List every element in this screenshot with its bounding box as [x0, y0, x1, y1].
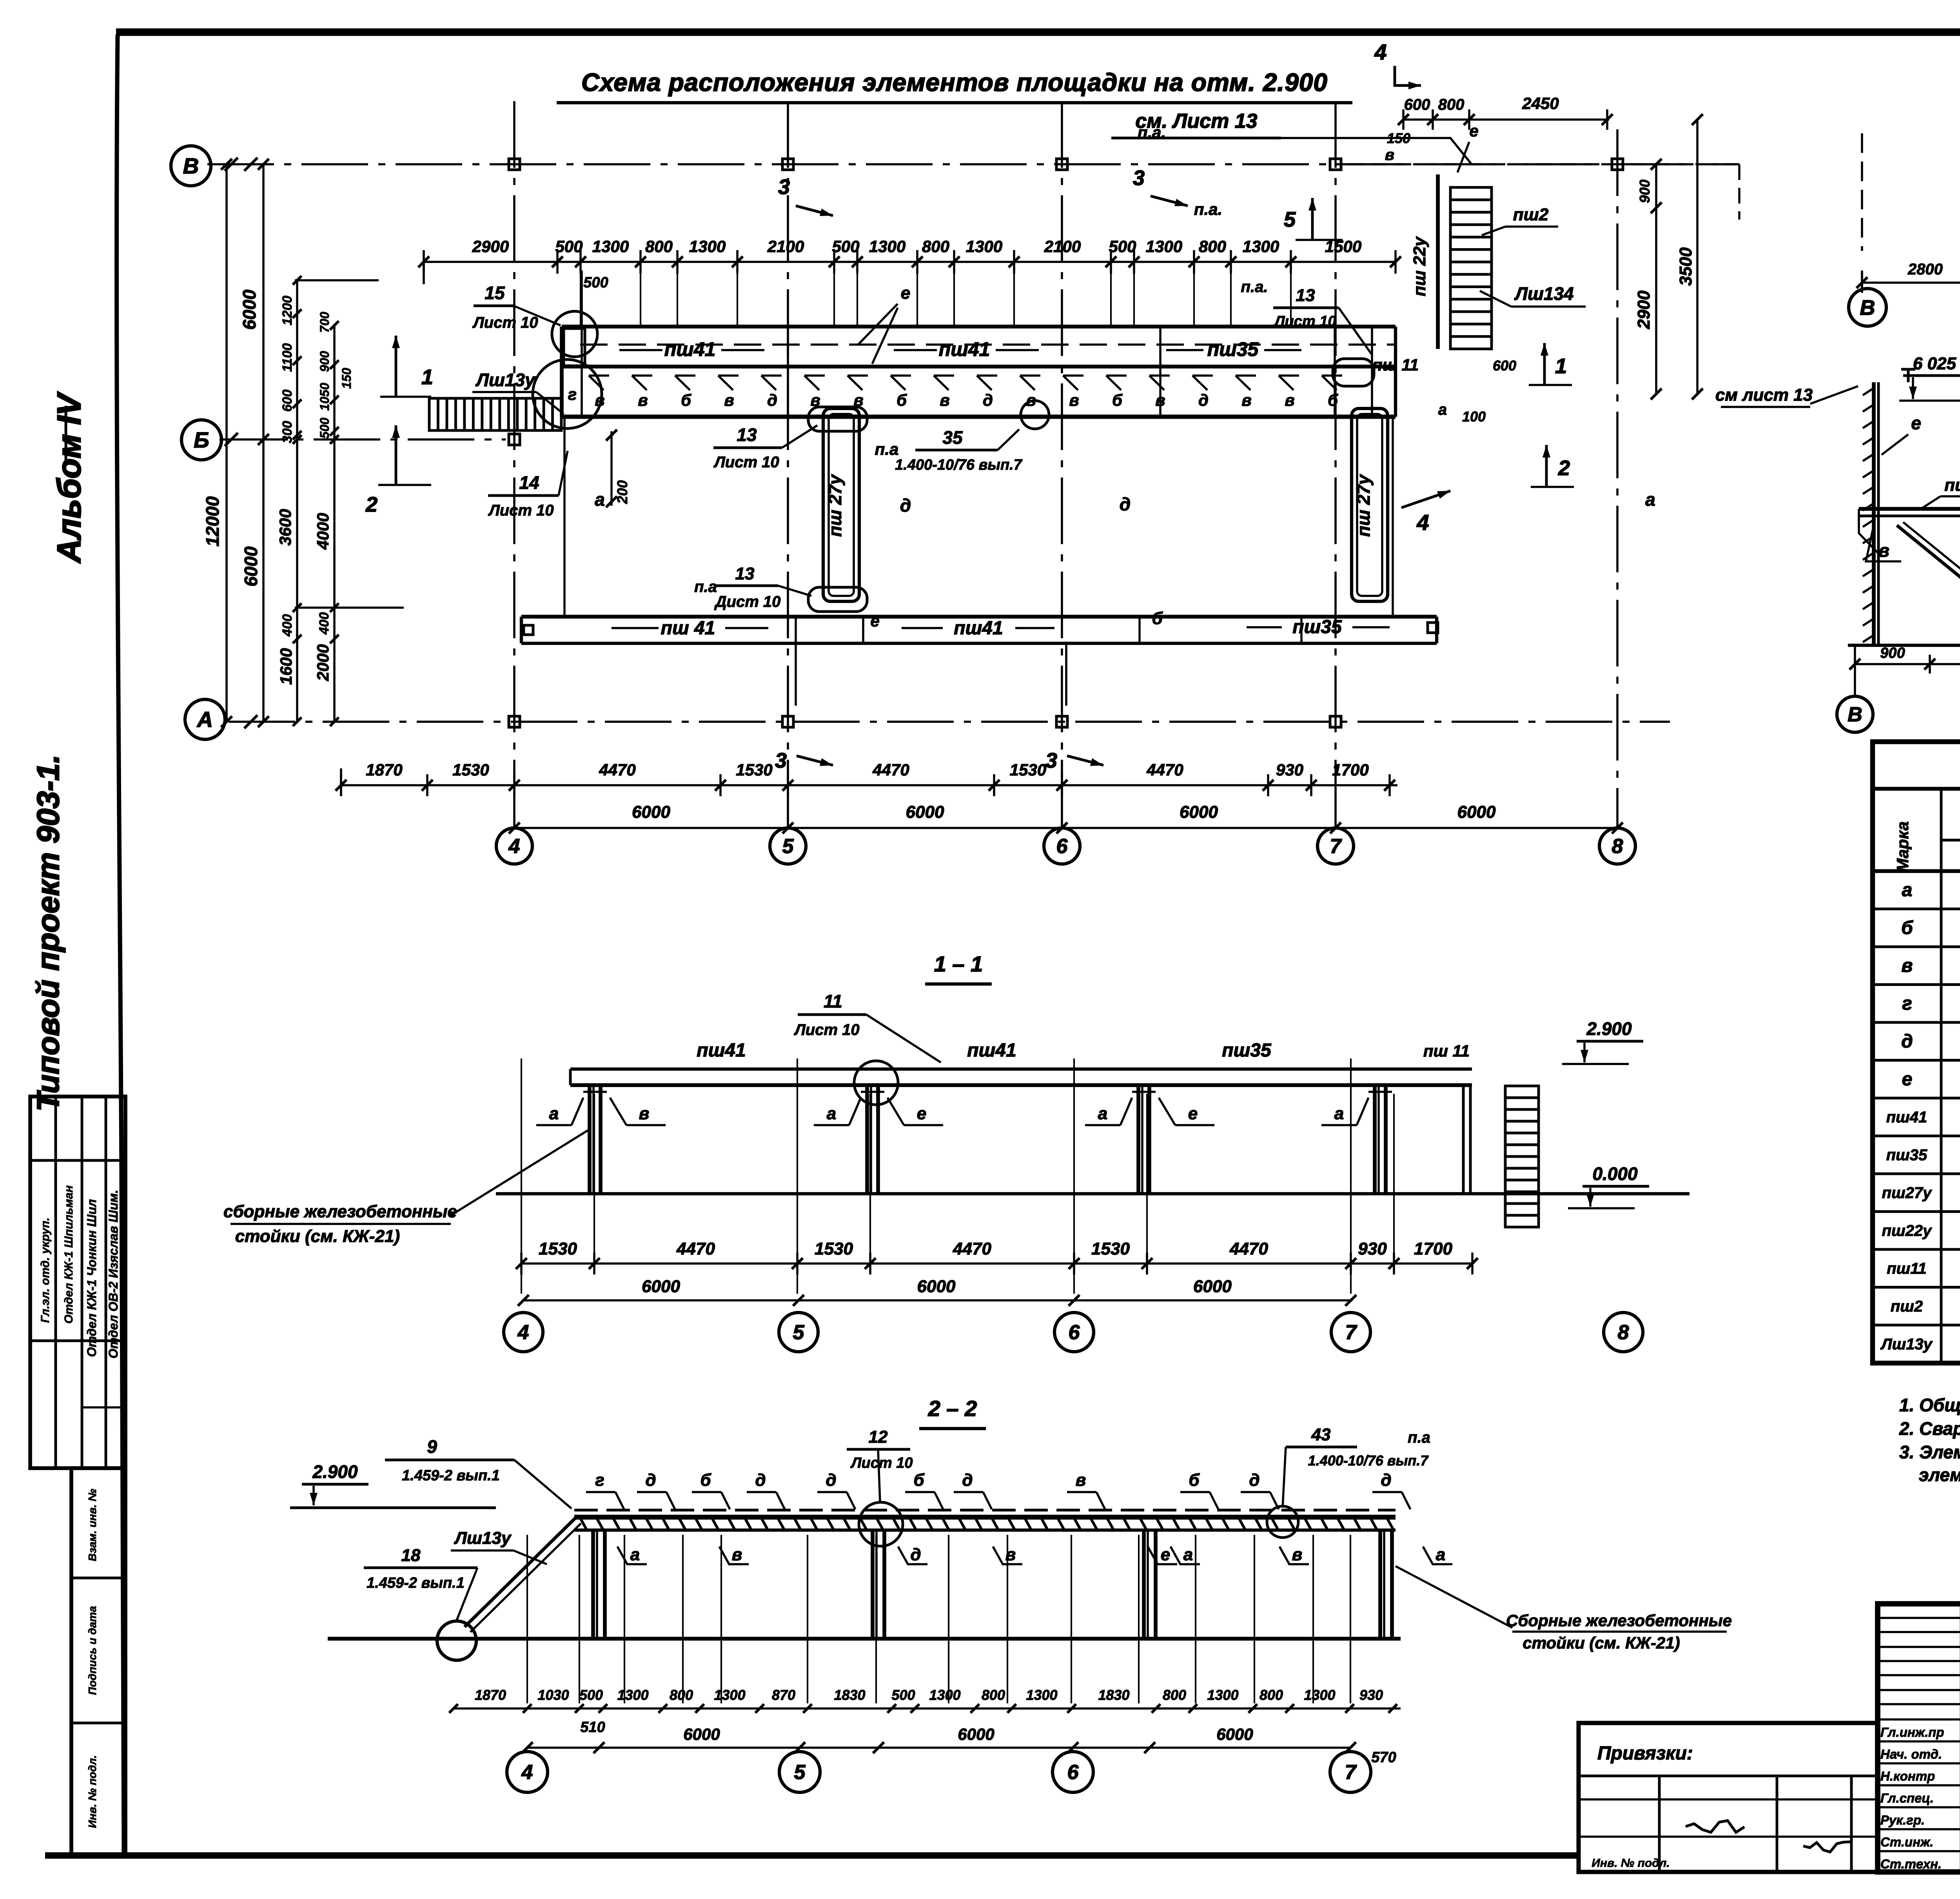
svg-text:Гл.эл. отд. укруп.: Гл.эл. отд. укруп. [39, 1218, 52, 1323]
svg-text:Инв. № подл.: Инв. № подл. [86, 1755, 98, 1828]
svg-text:900: 900 [1880, 645, 1905, 661]
svg-text:в: в [940, 391, 949, 409]
svg-text:Ст.инж.: Ст.инж. [1880, 1835, 1933, 1849]
svg-text:пш 27у: пш 27у [825, 474, 845, 537]
svg-text:18: 18 [401, 1546, 421, 1565]
svg-text:800: 800 [922, 237, 949, 256]
svg-text:300: 300 [280, 421, 295, 443]
svg-text:3. Элементы с индексом „У”: 3. Элементы с индексом „У” выполнить ана… [1899, 1442, 1960, 1462]
svg-text:1530: 1530 [539, 1239, 577, 1258]
svg-text:Альбом IV: Альбом IV [51, 392, 87, 564]
svg-text:а: а [827, 1104, 836, 1123]
svg-text:в: в [1878, 540, 1889, 561]
svg-text:1700: 1700 [1414, 1239, 1452, 1258]
svg-text:1300: 1300 [592, 237, 629, 256]
svg-text:В: В [1860, 296, 1875, 320]
svg-text:2. Сварку выполнять электрод: 2. Сварку выполнять электродами типа Э42… [1899, 1418, 1960, 1439]
svg-text:в: в [1005, 1545, 1016, 1564]
svg-text:1 – 1: 1 – 1 [934, 951, 983, 976]
svg-text:пш 41: пш 41 [661, 618, 715, 639]
svg-text:6 025: 6 025 [1913, 354, 1956, 373]
svg-text:150: 150 [1387, 130, 1410, 146]
svg-text:e: e [901, 283, 910, 303]
svg-text:В: В [1847, 703, 1862, 726]
svg-text:2: 2 [365, 493, 377, 516]
svg-text:в: в [1241, 391, 1251, 409]
svg-text:1100: 1100 [280, 343, 295, 372]
svg-text:пш22у: пш22у [1944, 476, 1960, 495]
svg-text:6000: 6000 [683, 1725, 720, 1743]
svg-text:пш41: пш41 [954, 618, 1003, 639]
svg-text:Дист 10: Дист 10 [714, 593, 781, 610]
svg-text:e: e [1469, 122, 1478, 140]
svg-text:Гл.инж.пр: Гл.инж.пр [1880, 1725, 1944, 1739]
svg-text:870: 870 [772, 1687, 795, 1703]
svg-text:6000: 6000 [642, 1277, 680, 1296]
svg-text:в: в [638, 391, 648, 409]
svg-text:п.а.: п.а. [1138, 123, 1166, 142]
svg-text:800: 800 [645, 237, 673, 256]
svg-text:43: 43 [1311, 1425, 1331, 1444]
svg-text:1870: 1870 [366, 761, 402, 779]
svg-text:500: 500 [555, 237, 583, 256]
svg-text:3: 3 [1133, 166, 1145, 190]
svg-text:600: 600 [280, 390, 295, 412]
svg-text:1300: 1300 [1146, 237, 1182, 256]
svg-text:в: в [639, 1104, 650, 1123]
svg-text:пш 11: пш 11 [1372, 356, 1419, 374]
svg-text:1530: 1530 [1010, 761, 1046, 779]
svg-text:400: 400 [317, 612, 332, 635]
svg-text:11: 11 [824, 991, 842, 1011]
svg-text:б: б [1901, 918, 1913, 939]
svg-text:1300: 1300 [714, 1687, 745, 1703]
svg-text:1300: 1300 [929, 1687, 960, 1703]
svg-text:6000: 6000 [958, 1725, 994, 1743]
svg-text:Лш13у: Лш13у [475, 370, 536, 390]
svg-text:а: а [1098, 1104, 1107, 1123]
svg-text:А: А [196, 707, 213, 732]
svg-text:2900: 2900 [472, 237, 509, 256]
svg-text:6000: 6000 [917, 1277, 956, 1296]
svg-text:а: а [1902, 880, 1913, 900]
svg-text:пш35: пш35 [1292, 617, 1342, 637]
svg-text:1530: 1530 [452, 761, 489, 779]
svg-text:6000: 6000 [239, 289, 260, 330]
svg-text:13: 13 [1296, 286, 1315, 305]
svg-text:4470: 4470 [1146, 761, 1183, 779]
svg-text:д: д [1120, 494, 1131, 514]
svg-text:800: 800 [1259, 1687, 1283, 1703]
svg-text:5: 5 [782, 835, 794, 858]
svg-text:п.а: п.а [1408, 1429, 1430, 1446]
svg-text:б: б [1112, 391, 1123, 409]
svg-text:д: д [962, 1471, 973, 1490]
svg-text:пш2: пш2 [1513, 205, 1549, 224]
svg-text:Взам. инв. №: Взам. инв. № [86, 1489, 98, 1561]
svg-text:1700: 1700 [1332, 761, 1368, 779]
svg-text:200: 200 [614, 480, 630, 504]
svg-text:4: 4 [508, 835, 520, 858]
svg-text:1300: 1300 [869, 237, 906, 256]
svg-text:Подпись и дата: Подпись и дата [86, 1606, 98, 1695]
svg-text:0.000: 0.000 [1592, 1164, 1638, 1184]
svg-text:а: а [1645, 489, 1655, 510]
svg-text:1530: 1530 [1091, 1239, 1130, 1258]
svg-text:1300: 1300 [1026, 1687, 1057, 1703]
svg-text:3: 3 [778, 175, 790, 199]
svg-text:а: а [1183, 1545, 1193, 1564]
svg-text:6: 6 [1069, 1321, 1080, 1344]
svg-text:пш 11: пш 11 [1423, 1042, 1470, 1060]
svg-text:2 – 2: 2 – 2 [928, 1396, 977, 1421]
svg-text:пш27у: пш27у [1882, 1184, 1932, 1202]
svg-text:п.а: п.а [694, 578, 717, 595]
svg-text:а: а [549, 1104, 559, 1123]
svg-text:8: 8 [1618, 1321, 1629, 1344]
svg-text:4: 4 [521, 1761, 533, 1784]
svg-text:п.а.: п.а. [1194, 200, 1222, 218]
svg-text:б: б [1152, 609, 1163, 628]
svg-text:5: 5 [793, 1321, 805, 1344]
svg-text:6000: 6000 [1180, 802, 1218, 822]
svg-text:пш35: пш35 [1207, 338, 1259, 360]
svg-text:4: 4 [1374, 40, 1387, 64]
svg-text:100: 100 [1462, 408, 1486, 425]
svg-text:500: 500 [583, 274, 608, 291]
svg-text:1300: 1300 [1207, 1687, 1238, 1703]
svg-text:п.а: п.а [875, 440, 899, 458]
svg-text:500: 500 [832, 237, 859, 256]
svg-text:Лист 10: Лист 10 [472, 314, 538, 331]
svg-text:150: 150 [339, 368, 354, 389]
svg-text:570: 570 [1371, 1749, 1396, 1766]
svg-text:Лист 10: Лист 10 [713, 454, 779, 471]
svg-text:Лист 10: Лист 10 [1273, 313, 1336, 330]
svg-text:6000: 6000 [632, 802, 670, 822]
svg-text:Лист 10: Лист 10 [793, 1021, 859, 1038]
svg-text:600: 600 [1493, 358, 1516, 374]
svg-text:д: д [767, 391, 777, 409]
svg-text:а: а [630, 1545, 640, 1564]
svg-text:2.900: 2.900 [1586, 1018, 1632, 1039]
svg-text:7: 7 [1345, 1321, 1357, 1344]
svg-text:3600: 3600 [276, 509, 294, 545]
svg-text:д: д [1381, 1471, 1391, 1490]
svg-text:б: б [913, 1471, 925, 1490]
svg-text:Отдел КЖ-1 Шпильман: Отдел КЖ-1 Шпильман [62, 1186, 75, 1324]
svg-text:4: 4 [1416, 510, 1429, 535]
svg-text:6000: 6000 [241, 546, 261, 586]
svg-text:900: 900 [318, 351, 332, 372]
svg-text:б: б [700, 1471, 711, 1490]
svg-text:д: д [1249, 1471, 1259, 1490]
svg-text:1870: 1870 [475, 1687, 506, 1703]
svg-text:д: д [900, 495, 911, 516]
svg-text:930: 930 [1276, 761, 1303, 779]
svg-text:2: 2 [1558, 456, 1570, 480]
svg-text:Лш13у: Лш13у [1880, 1336, 1933, 1353]
svg-text:12: 12 [869, 1427, 888, 1447]
svg-text:Привязки:: Привязки: [1597, 1743, 1693, 1764]
svg-text:6000: 6000 [1193, 1277, 1232, 1296]
svg-text:Б: Б [194, 428, 209, 452]
svg-text:д: д [645, 1471, 656, 1490]
svg-text:6: 6 [1067, 1761, 1079, 1784]
svg-text:1.400-10/76 вып.7: 1.400-10/76 вып.7 [895, 457, 1023, 473]
svg-text:6000: 6000 [906, 802, 944, 822]
svg-text:элементам серии 1.459-2 вып.: элементам серии 1.459-2 вып.1 с укорочен… [1919, 1465, 1960, 1485]
svg-text:4470: 4470 [1229, 1239, 1268, 1258]
svg-text:2100: 2100 [767, 237, 804, 256]
svg-text:800: 800 [670, 1687, 693, 1703]
svg-text:510: 510 [580, 1719, 605, 1736]
svg-text:2450: 2450 [1522, 94, 1559, 113]
svg-text:500: 500 [318, 418, 332, 439]
svg-text:см лист 13: см лист 13 [1715, 385, 1813, 405]
svg-text:пш11: пш11 [1887, 1260, 1927, 1277]
svg-text:д: д [826, 1471, 836, 1490]
svg-text:5: 5 [794, 1761, 806, 1784]
svg-text:12000: 12000 [202, 496, 223, 546]
svg-text:6000: 6000 [1457, 802, 1496, 822]
svg-text:700: 700 [318, 312, 332, 333]
svg-text:1530: 1530 [815, 1239, 853, 1258]
svg-text:3: 3 [1045, 749, 1057, 772]
svg-text:сборные железобетонные: сборные железобетонные [223, 1202, 457, 1221]
svg-text:1030: 1030 [537, 1687, 569, 1703]
svg-text:б: б [1328, 391, 1338, 409]
svg-text:Инв. № подл.: Инв. № подл. [1592, 1857, 1670, 1870]
svg-text:в: в [1155, 391, 1165, 409]
svg-text:14: 14 [519, 472, 539, 493]
svg-text:г: г [595, 1471, 604, 1490]
svg-text:4: 4 [517, 1321, 529, 1344]
svg-text:Лш13у: Лш13у [454, 1529, 512, 1548]
svg-text:пш 27у: пш 27у [1353, 474, 1374, 537]
svg-text:в: в [1385, 146, 1394, 163]
svg-text:а: а [1334, 1104, 1344, 1123]
svg-text:пш41: пш41 [939, 338, 990, 360]
svg-text:в: в [1902, 955, 1913, 976]
svg-text:1.459-2 вып.1: 1.459-2 вып.1 [367, 1575, 465, 1591]
svg-text:800: 800 [1163, 1687, 1186, 1703]
svg-text:д: д [1198, 391, 1209, 409]
svg-text:800: 800 [982, 1687, 1005, 1703]
svg-text:4000: 4000 [314, 513, 332, 550]
svg-text:д: д [910, 1545, 921, 1564]
svg-text:а: а [595, 489, 605, 510]
svg-text:e: e [870, 612, 879, 630]
svg-text:500: 500 [579, 1687, 603, 1703]
svg-text:Типовой проект 903-1.: Типовой проект 903-1. [31, 755, 65, 1112]
svg-text:пш35: пш35 [1222, 1040, 1272, 1061]
svg-text:п.а.: п.а. [1241, 278, 1268, 296]
svg-text:а: а [1436, 1545, 1445, 1564]
svg-text:1050: 1050 [318, 383, 332, 410]
svg-text:пш41: пш41 [697, 1040, 746, 1061]
svg-text:пш41: пш41 [664, 338, 716, 360]
svg-text:7: 7 [1330, 835, 1342, 858]
svg-text:e: e [1188, 1104, 1198, 1123]
svg-text:пш 22у: пш 22у [1410, 236, 1429, 296]
svg-text:2.900: 2.900 [312, 1461, 358, 1482]
svg-text:Лш134: Лш134 [1514, 283, 1573, 304]
svg-text:в: в [1292, 1545, 1303, 1564]
svg-text:e: e [917, 1104, 926, 1123]
svg-text:600: 600 [1404, 96, 1430, 113]
svg-text:пш35: пш35 [1886, 1147, 1927, 1164]
svg-text:пш22у: пш22у [1882, 1222, 1932, 1240]
svg-text:4470: 4470 [872, 761, 909, 779]
svg-text:б: б [897, 391, 907, 409]
svg-text:2000: 2000 [314, 644, 332, 681]
svg-text:в: в [1285, 391, 1294, 409]
svg-text:4470: 4470 [676, 1239, 715, 1258]
svg-text:Сборные железобетонные: Сборные железобетонные [1506, 1611, 1732, 1630]
svg-text:2900: 2900 [1634, 290, 1653, 329]
svg-text:Отдел КЖ-1 Чонкин Шил: Отдел КЖ-1 Чонкин Шил [85, 1199, 99, 1357]
svg-text:в: в [1069, 391, 1079, 409]
svg-text:4470: 4470 [953, 1239, 991, 1258]
svg-text:б: б [1189, 1471, 1200, 1490]
svg-text:е: е [1161, 1545, 1170, 1564]
svg-text:В: В [183, 154, 199, 178]
svg-text:в: в [1076, 1471, 1086, 1490]
svg-text:930: 930 [1359, 1687, 1383, 1703]
svg-text:800: 800 [1438, 96, 1465, 113]
svg-text:1830: 1830 [1098, 1687, 1129, 1703]
svg-text:г: г [1902, 993, 1912, 1014]
svg-text:5: 5 [1284, 208, 1296, 231]
svg-text:2800: 2800 [1907, 261, 1943, 278]
svg-text:1: 1 [421, 365, 433, 389]
svg-text:е: е [1902, 1069, 1913, 1090]
svg-text:г: г [568, 385, 577, 403]
svg-text:1830: 1830 [834, 1687, 865, 1703]
svg-text:Лист 10: Лист 10 [850, 1455, 913, 1471]
svg-text:1300: 1300 [617, 1687, 648, 1703]
svg-text:13: 13 [737, 425, 757, 445]
svg-text:Отдел ОВ-2 Изяслав Шим.: Отдел ОВ-2 Изяслав Шим. [106, 1190, 120, 1358]
svg-text:Схема расположения элементов: Схема расположения элементов площадки на… [581, 68, 1328, 96]
svg-text:930: 930 [1358, 1239, 1387, 1258]
svg-text:9: 9 [427, 1436, 437, 1457]
svg-text:д: д [1901, 1031, 1913, 1052]
svg-text:6: 6 [1056, 835, 1068, 858]
svg-text:7: 7 [1345, 1761, 1357, 1784]
svg-text:400: 400 [280, 614, 295, 637]
svg-text:15: 15 [485, 283, 505, 303]
svg-text:1300: 1300 [689, 237, 726, 256]
svg-text:пш41: пш41 [1886, 1109, 1927, 1126]
svg-text:Н.контр: Н.контр [1880, 1769, 1935, 1783]
svg-text:Гл.спец.: Гл.спец. [1880, 1791, 1934, 1805]
svg-text:6000: 6000 [1216, 1725, 1253, 1743]
svg-text:д: д [755, 1471, 766, 1490]
svg-text:1.400-10/76 вып.7: 1.400-10/76 вып.7 [1308, 1452, 1429, 1469]
svg-text:13: 13 [735, 564, 755, 583]
svg-text:3500: 3500 [1676, 247, 1695, 286]
svg-text:Рук.гр.: Рук.гр. [1880, 1813, 1925, 1827]
svg-text:900: 900 [1637, 180, 1653, 203]
svg-text:35: 35 [942, 427, 963, 448]
svg-text:б: б [681, 391, 691, 409]
svg-text:1300: 1300 [1243, 237, 1279, 256]
svg-text:1. Общие указания см. лист: 1. Общие указания см. лист КМ-1. [1899, 1395, 1960, 1415]
svg-text:1: 1 [1555, 354, 1567, 378]
svg-text:стойки (см. КЖ-21): стойки (см. КЖ-21) [1523, 1634, 1680, 1652]
svg-text:а: а [1438, 401, 1447, 418]
svg-text:Марка: Марка [1893, 821, 1912, 872]
svg-text:8: 8 [1612, 835, 1623, 858]
svg-text:д: д [983, 391, 993, 409]
svg-text:Ст.техн.: Ст.техн. [1880, 1857, 1942, 1871]
svg-text:пш2: пш2 [1891, 1298, 1923, 1315]
svg-text:стойки (см. КЖ-21): стойки (см. КЖ-21) [235, 1227, 400, 1246]
svg-text:800: 800 [1199, 237, 1226, 256]
svg-text:4470: 4470 [599, 761, 635, 779]
svg-text:Нач. отд.: Нач. отд. [1880, 1747, 1942, 1761]
svg-text:3: 3 [775, 749, 787, 772]
svg-text:1530: 1530 [736, 761, 772, 779]
svg-text:пш41: пш41 [967, 1040, 1016, 1061]
svg-text:2100: 2100 [1044, 237, 1081, 256]
svg-text:1200: 1200 [280, 296, 295, 325]
svg-text:e: e [1911, 413, 1921, 433]
svg-text:1.459-2 вып.1: 1.459-2 вып.1 [402, 1467, 500, 1484]
svg-text:в: в [724, 391, 734, 409]
svg-text:500: 500 [891, 1687, 915, 1703]
svg-text:в: в [732, 1545, 742, 1564]
svg-text:1600: 1600 [277, 648, 295, 684]
svg-text:1300: 1300 [1304, 1687, 1335, 1703]
svg-text:Лист 10: Лист 10 [488, 502, 554, 519]
svg-text:1300: 1300 [966, 237, 1002, 256]
svg-text:500: 500 [1109, 237, 1136, 256]
